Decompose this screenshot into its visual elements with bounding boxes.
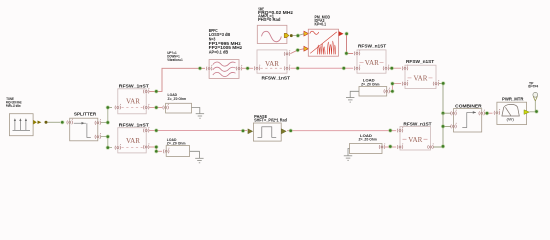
load T4 input port xyxy=(379,143,385,149)
svg-text:Z=_Z0 Ohm: Z=_Z0 Ohm xyxy=(167,142,186,146)
modulator A3 output marker pin 3 xyxy=(339,31,344,36)
ground for load T2 xyxy=(346,91,359,102)
node N15 xyxy=(342,66,346,70)
node N14 xyxy=(296,66,300,70)
wire S2 bottom output to load xyxy=(150,107,163,109)
phase shifter P1 label xyxy=(254,114,287,123)
svg-text:RFSW_n1ST: RFSW_n1ST xyxy=(403,122,432,127)
node N20 xyxy=(441,111,445,115)
ground for load T3 xyxy=(190,151,204,163)
load T3 input port xyxy=(163,148,169,154)
source V1 TONE label xyxy=(6,97,22,108)
switch S3 output port pin 2 xyxy=(284,50,290,56)
switch S7 body xyxy=(400,127,431,151)
modulator A3 body xyxy=(308,29,338,56)
node N25 xyxy=(289,129,293,133)
svg-text:VAR: VAR xyxy=(414,74,429,83)
switch S2 body xyxy=(118,89,146,114)
splitter S1 output port pin 3 xyxy=(95,133,101,139)
switch S5 input port pin 2 xyxy=(402,80,408,86)
node N9 xyxy=(246,66,250,70)
switch S7 input port pin 2 xyxy=(397,143,403,149)
filter F1 output port pin 2 xyxy=(236,65,242,71)
switch S6 body xyxy=(118,128,146,153)
phase shifter P1 pulse symbol xyxy=(258,127,277,138)
svg-text:KP=0.1: KP=0.1 xyxy=(315,21,327,26)
wire S6 top output to PHASE xyxy=(150,130,248,132)
svg-text:AP=0.1 dB: AP=0.1 dB xyxy=(209,49,229,54)
switch S6 output port pin 3 xyxy=(143,143,149,149)
node N18 xyxy=(390,82,394,86)
phase shifter P1 input marker xyxy=(248,129,253,134)
svg-text:Z=_Z0 Ohm: Z=_Z0 Ohm xyxy=(168,97,187,101)
power meter output marker xyxy=(524,110,529,115)
modulator A3 PM_MOD label xyxy=(315,14,331,26)
wire S6 bottom output to load xyxy=(150,147,163,151)
switch S2 dashed throw xyxy=(122,107,143,109)
switch S7 output port pin 3 xyxy=(428,143,434,149)
splitter S1 output port pin 2 xyxy=(95,119,101,125)
node N19 xyxy=(441,81,445,85)
load T2 input port xyxy=(384,88,390,94)
filter F1 input port pin 1 xyxy=(206,65,212,71)
wire PHASE to S7 xyxy=(287,130,396,132)
svg-text:(W): (W) xyxy=(507,117,514,121)
phase shifter P1 output marker xyxy=(281,129,286,134)
svg-text:VAR: VAR xyxy=(126,136,141,145)
load T1 input port xyxy=(163,104,169,110)
load T2 body xyxy=(359,87,387,97)
node N21 xyxy=(154,128,158,132)
load T1 body xyxy=(166,103,192,113)
svg-text:RFSW_n1ST: RFSW_n1ST xyxy=(358,43,387,48)
switch S4 input port pin 2 xyxy=(354,65,360,71)
filter F1 BPFC label xyxy=(209,28,243,55)
power meter body xyxy=(497,102,527,124)
switch S3 body xyxy=(257,50,287,73)
filter F1 body xyxy=(209,60,239,79)
source V2 output marker xyxy=(284,33,289,37)
switch S5 output port pin 3 xyxy=(433,80,439,86)
node small after SINE xyxy=(290,34,293,37)
source V2 SINE body xyxy=(257,25,287,43)
node N5 xyxy=(106,146,110,150)
wire S5 output down to combiner xyxy=(439,83,451,113)
node N16 xyxy=(390,66,394,70)
svg-text:RFSW_1nST: RFSW_1nST xyxy=(119,122,149,127)
wire combiner to power meter xyxy=(485,112,493,114)
wire S7 output up to combiner xyxy=(434,113,451,147)
load T4 body xyxy=(350,144,383,154)
switch S5 input port pin 1 xyxy=(402,65,408,71)
svg-text:SHFT=_PI/2*1 Rad: SHFT=_PI/2*1 Rad xyxy=(254,118,287,123)
node N11 xyxy=(296,48,300,52)
svg-text:RFSW_1nST: RFSW_1nST xyxy=(262,76,291,81)
node N24 xyxy=(154,149,158,153)
power meter gauge symbol xyxy=(502,104,519,116)
node N23 xyxy=(154,145,158,149)
node N13 xyxy=(344,51,348,55)
node N6 xyxy=(154,89,158,93)
wire load T2 to S5 lower input xyxy=(390,84,401,92)
wire BPFC to S3 xyxy=(242,67,253,69)
switch S4 body xyxy=(357,50,386,73)
node N22 xyxy=(241,129,245,133)
load T3 body xyxy=(166,146,189,157)
wire power meter to test point xyxy=(530,111,537,113)
phase shifter P1 body xyxy=(253,123,281,141)
svg-text:Z=_Z0 Ohm: Z=_Z0 Ohm xyxy=(359,138,377,142)
switch S6 input port pin 1 xyxy=(115,144,121,150)
switch S4 output port pin 3 xyxy=(383,65,389,71)
svg-text:VAR: VAR xyxy=(265,59,280,68)
svg-text:VAR: VAR xyxy=(408,135,423,144)
wire TONE to splitter xyxy=(48,121,61,123)
wire S3 top output to PM_MOD xyxy=(290,49,304,54)
node N12 xyxy=(345,32,349,36)
node N26 xyxy=(388,128,392,132)
wire S2 top output to BPFC xyxy=(150,68,206,91)
load T3 label xyxy=(167,138,186,146)
svg-text:VAR: VAR xyxy=(126,96,141,105)
wire PM_MOD down to S4 xyxy=(347,35,354,53)
switch S2 output port pin 3 xyxy=(143,104,149,110)
test point TP4 label xyxy=(528,81,538,88)
modulator A3 input marker pin 2 xyxy=(304,46,309,51)
switch S3 dashed throw xyxy=(261,67,284,69)
node N3 xyxy=(106,105,110,109)
ground for load T4 xyxy=(344,149,352,161)
node N7 xyxy=(198,66,202,70)
svg-text:VAR: VAR xyxy=(365,58,380,67)
node N31 xyxy=(534,109,538,113)
switch S2 input port pin 1 xyxy=(115,104,121,110)
source V2 SINE label xyxy=(258,7,293,23)
node N10 xyxy=(296,34,300,38)
source V1 TONE body xyxy=(9,114,33,136)
combiner S8 body xyxy=(454,109,482,132)
switch S4 input port pin 1 xyxy=(354,50,360,56)
wire S3 bottom output to S4 xyxy=(291,67,354,69)
combiner S8 symbol xyxy=(462,111,476,127)
wire splitter to upper branch xyxy=(101,108,112,123)
ground for load T1 xyxy=(192,108,205,119)
switch S5 body xyxy=(405,65,436,88)
combiner S8 output port pin 3 xyxy=(479,110,485,116)
node N28 xyxy=(441,124,445,128)
wire SINE to PM_MOD xyxy=(293,34,304,36)
switch S7 input port pin 1 xyxy=(397,127,403,133)
svg-text:PWR=-10 dBm: PWR=-10 dBm xyxy=(6,104,21,108)
source V2 sine symbol xyxy=(262,31,282,41)
node N30 xyxy=(485,111,489,115)
node N4 xyxy=(106,135,110,139)
test point TP4 symbol xyxy=(533,92,538,110)
switch S5 VAR value xyxy=(408,74,433,83)
svg-text:PWR_MTR: PWR_MTR xyxy=(502,96,524,101)
modulator A3 symbol xyxy=(310,31,337,54)
svg-text:SPLITTER: SPLITTER xyxy=(74,111,97,116)
svg-text:Z=_Z0 Ohm: Z=_Z0 Ohm xyxy=(361,82,379,86)
switch S4 VAR value xyxy=(360,58,384,67)
splitter S1 body xyxy=(70,118,98,141)
wire splitter to lower branch xyxy=(101,137,112,148)
switch S3 input port pin 1 xyxy=(254,65,260,71)
node N29 xyxy=(441,144,445,148)
combiner S8 input port pin 1 xyxy=(451,110,457,116)
wire load T4 to S7 lower input xyxy=(385,146,396,148)
combiner S8 input port pin 2 xyxy=(451,123,457,129)
svg-text:RFSW_n1ST: RFSW_n1ST xyxy=(406,59,435,64)
node N2 xyxy=(106,120,110,124)
source V1 TONE output marker xyxy=(33,120,47,125)
switch S6 dashed throw xyxy=(122,146,143,148)
node N27 xyxy=(388,144,392,148)
switch S2 output port pin 2 xyxy=(143,88,149,94)
load T4 label xyxy=(359,134,377,142)
svg-text:COMBINER: COMBINER xyxy=(455,104,482,109)
splitter S1 symbol xyxy=(74,122,91,137)
load T1 label xyxy=(168,93,187,101)
power meter input port xyxy=(494,109,500,115)
node N17 xyxy=(390,89,394,93)
annotation UP equation block xyxy=(167,51,183,62)
switch S7 VAR value xyxy=(403,135,428,144)
switch S6 output port pin 2 xyxy=(143,127,149,133)
node N8 xyxy=(154,105,158,109)
source V1 TONE spectrum symbol xyxy=(13,118,31,130)
svg-text:Vibration=1: Vibration=1 xyxy=(167,58,183,62)
load T2 label xyxy=(361,79,379,87)
wire S4 to S5 xyxy=(389,67,401,69)
splitter S1 input port pin 1 xyxy=(67,119,73,125)
svg-text:RFSW_1nST: RFSW_1nST xyxy=(119,84,149,89)
svg-text:ID=TP4: ID=TP4 xyxy=(528,85,538,89)
svg-text:PHS=0 Rad: PHS=0 Rad xyxy=(258,17,281,22)
node N1 xyxy=(60,120,64,124)
switch S3 output port pin 3 xyxy=(284,65,290,71)
filter F1 wave symbol xyxy=(213,62,236,77)
modulator A3 input marker pin 1 xyxy=(304,31,309,36)
